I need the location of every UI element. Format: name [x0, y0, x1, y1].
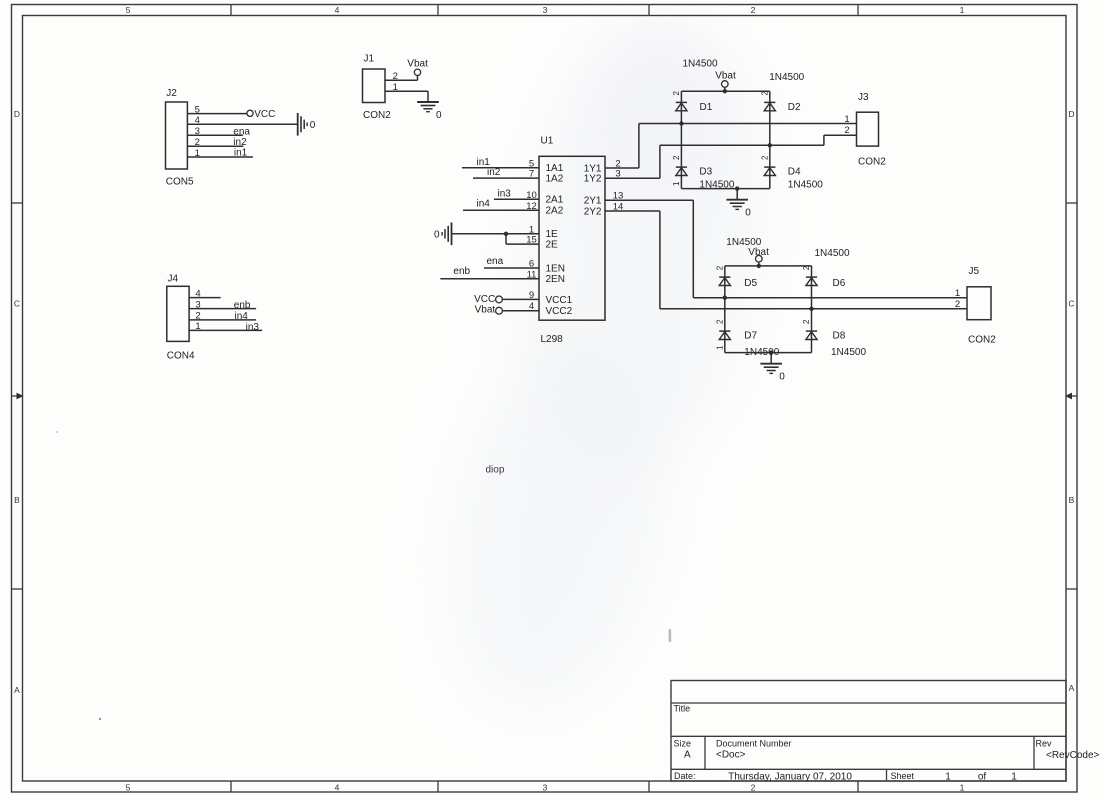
svg-text:0: 0	[436, 110, 442, 121]
svg-text:4: 4	[335, 783, 340, 793]
J4 pin numbers 4 3 2 1	[195, 288, 200, 332]
ground 0 (U1 1E/2E, earth style)	[434, 223, 452, 246]
svg-text:1: 1	[960, 5, 965, 15]
svg-text:B: B	[14, 495, 20, 505]
svg-text:enb: enb	[453, 266, 470, 277]
svg-text:1: 1	[955, 288, 960, 299]
junction Vbat tap bridge2	[757, 264, 761, 268]
svg-text:0: 0	[310, 120, 316, 131]
svg-text:CON2: CON2	[363, 110, 391, 121]
svg-text:of: of	[978, 772, 987, 783]
connector J3 CON2	[857, 92, 887, 168]
wire Vbat to U1 pin4	[502, 310, 539, 312]
svg-text:VCC: VCC	[474, 294, 495, 305]
svg-text:2: 2	[955, 299, 960, 310]
power symbol Vbat (bridge1)	[715, 71, 736, 92]
svg-text:1A2: 1A2	[546, 174, 564, 185]
svg-text:J2: J2	[166, 88, 177, 99]
svg-text:Vbat: Vbat	[407, 59, 428, 70]
svg-text:VCC: VCC	[254, 109, 275, 120]
svg-text:J3: J3	[858, 92, 869, 103]
connector J1 CON2	[363, 54, 392, 122]
svg-text:A: A	[684, 750, 691, 761]
wire rail B2 to J5 pin2	[660, 308, 967, 310]
connector J2 CON5	[166, 88, 195, 188]
power symbol Vbat (bridge2)	[748, 247, 769, 266]
svg-text:Thursday, January 07, 2010: Thursday, January 07, 2010	[728, 772, 852, 783]
svg-text:Size: Size	[674, 739, 692, 749]
wire U1 1Y2 (pin3) up to bridge rail B	[605, 145, 660, 178]
wire rail A to J3 pin1	[639, 123, 857, 125]
junction Vbat tap bridge1	[723, 89, 727, 93]
diode D6	[806, 277, 817, 285]
svg-text:Sheet: Sheet	[891, 771, 915, 781]
svg-text:B: B	[1069, 495, 1075, 505]
svg-text:1N4500: 1N4500	[831, 347, 866, 358]
svg-text:2Y2: 2Y2	[584, 206, 602, 217]
svg-text:in4: in4	[235, 311, 249, 322]
junction ground tap bridge2	[769, 350, 773, 354]
svg-text:0: 0	[434, 229, 440, 240]
wire net in3 to U1 pin10	[494, 198, 539, 200]
wire J2 pin3, net ena	[187, 134, 242, 136]
svg-text:D1: D1	[700, 102, 713, 113]
svg-text:2A1: 2A1	[546, 195, 564, 206]
junction rail A2 / D5 D7 leg	[723, 296, 727, 300]
svg-text:L298: L298	[541, 334, 564, 345]
wire net in2 to U1 pin7	[473, 177, 539, 179]
wire net ena to U1 pin6	[484, 267, 539, 269]
svg-text:in1: in1	[234, 147, 248, 158]
svg-text:CON2: CON2	[968, 335, 996, 346]
svg-text:D3: D3	[699, 166, 712, 177]
svg-text:in3: in3	[246, 322, 260, 333]
svg-text:1: 1	[960, 783, 965, 793]
junction 1E/2E	[504, 232, 508, 236]
svg-text:CON4: CON4	[167, 351, 195, 362]
svg-text:Vbat: Vbat	[475, 305, 496, 316]
diode D8	[806, 331, 817, 339]
svg-text:VCC1: VCC1	[546, 295, 573, 306]
svg-text:2: 2	[751, 783, 756, 793]
svg-text:Vbat: Vbat	[715, 71, 736, 82]
svg-text:in3: in3	[498, 188, 512, 199]
U1 left pin numbers	[526, 158, 537, 312]
svg-text:D: D	[14, 109, 20, 119]
svg-text:J4: J4	[168, 274, 179, 285]
svg-text:1N4500: 1N4500	[683, 59, 718, 70]
svg-text:A: A	[14, 685, 20, 695]
connector J5 CON2	[967, 266, 996, 346]
svg-text:ena: ena	[233, 126, 250, 137]
svg-text:1N4500: 1N4500	[788, 180, 823, 191]
wire U1 2Y1 (pin13) down to bridge rail A2	[605, 200, 693, 298]
svg-text:3: 3	[543, 783, 548, 793]
svg-text:1N4500: 1N4500	[726, 237, 761, 248]
svg-text:1EN: 1EN	[546, 263, 565, 274]
wire J1 pin2 to Vbat	[385, 75, 418, 80]
svg-text:2EN: 2EN	[546, 274, 565, 285]
svg-text:A: A	[1069, 683, 1075, 693]
title block	[671, 681, 1100, 783]
svg-text:2A2: 2A2	[546, 206, 564, 217]
ground 0 (bridge2)	[760, 353, 785, 383]
svg-text:U1: U1	[541, 136, 554, 147]
svg-text:D: D	[1068, 109, 1074, 119]
svg-text:2Y1: 2Y1	[584, 196, 602, 207]
power symbol Vbat (U1 VCC2)	[475, 305, 503, 316]
svg-text:C: C	[1068, 299, 1074, 309]
power symbol VCC (J2)	[247, 109, 275, 120]
svg-text:J5: J5	[969, 266, 980, 277]
ground 0 (J1)	[417, 102, 442, 121]
power symbol VCC (U1 VCC1)	[474, 294, 502, 305]
svg-text:<Doc>: <Doc>	[716, 750, 746, 761]
svg-text:2: 2	[802, 265, 811, 270]
op-amp U1 L298 body	[539, 136, 605, 346]
svg-text:J1: J1	[364, 54, 375, 65]
svg-text:Date:: Date:	[674, 771, 696, 781]
svg-text:1N4500: 1N4500	[815, 248, 850, 259]
svg-text:C: C	[14, 299, 20, 309]
wire D1 D3 leg	[680, 91, 682, 188]
wire D2 D4 leg	[769, 91, 771, 188]
svg-text:Document Number: Document Number	[716, 739, 792, 749]
wire U1 2Y2 (pin14) down to bridge rail B2	[605, 211, 660, 309]
svg-text:1: 1	[1011, 772, 1017, 783]
diode D1	[676, 102, 687, 110]
wire J1 pin1 to ground	[385, 91, 428, 102]
wire bridge2 bottom rail	[725, 352, 812, 354]
wire J2 pin1, net in1	[187, 156, 253, 158]
U1 right pin numbers	[613, 159, 624, 213]
diode D4	[764, 167, 775, 175]
svg-text:1Y2: 1Y2	[584, 174, 602, 185]
svg-text:1: 1	[844, 114, 849, 125]
svg-text:2: 2	[715, 319, 724, 324]
wire net in1 to U1 pin5	[462, 167, 539, 169]
diode D5	[719, 277, 730, 285]
svg-text:in2: in2	[487, 167, 501, 178]
ground 0 (J2 pin4, earth style)	[298, 113, 316, 136]
svg-text:2E: 2E	[546, 240, 559, 251]
svg-text:1: 1	[672, 181, 681, 186]
wire net enb to U1 pin11	[440, 278, 539, 280]
diode D3	[676, 167, 687, 175]
junction rail A / D1 D3 leg	[679, 121, 683, 125]
wire J2 pin2, net in2	[187, 145, 243, 147]
wire net in4 to U1 pin12	[463, 209, 539, 211]
diode D2	[764, 102, 775, 110]
svg-text:D2: D2	[788, 102, 801, 113]
svg-text:3: 3	[543, 5, 548, 15]
svg-text:5: 5	[126, 783, 131, 793]
wire bridge1 top rail	[681, 90, 769, 92]
svg-text:2: 2	[715, 265, 724, 270]
svg-text:5: 5	[126, 5, 131, 15]
svg-text:2: 2	[672, 91, 681, 96]
wire to U1 pin15 2E	[506, 234, 539, 244]
wire rail B to J3 pin2 jog	[660, 135, 857, 145]
wire ground to U1 pin1 1E	[452, 233, 540, 235]
wire bridge2 top rail	[725, 265, 812, 267]
wire J2 pin5 to VCC	[187, 113, 246, 115]
wire VCC to U1 pin9	[502, 298, 539, 300]
svg-text:Vbat: Vbat	[748, 247, 769, 258]
J2 pin numbers 5 4 3 2 1	[195, 104, 200, 158]
svg-text:1: 1	[715, 345, 724, 350]
svg-text:2: 2	[844, 125, 849, 136]
wire J4 pin3, net enb	[189, 308, 256, 310]
svg-text:CON5: CON5	[166, 177, 194, 188]
svg-text:2: 2	[760, 91, 769, 96]
junction ground tap bridge1	[735, 186, 739, 190]
svg-text:D4: D4	[788, 166, 801, 177]
svg-text:D8: D8	[833, 330, 846, 341]
svg-text:D7: D7	[744, 330, 757, 341]
svg-text:D5: D5	[744, 278, 757, 289]
ground 0 (bridge1)	[726, 189, 751, 219]
svg-text:1: 1	[945, 772, 951, 783]
U1 right pin names	[584, 163, 602, 217]
connector J4 CON4	[167, 274, 195, 362]
wire D6 D8 leg	[811, 266, 813, 353]
svg-text:Title: Title	[674, 704, 691, 714]
svg-text:diop: diop	[486, 465, 505, 476]
svg-text:in4: in4	[477, 199, 491, 210]
svg-text:0: 0	[745, 208, 751, 219]
wire D5 D7 leg	[724, 266, 726, 353]
svg-text:Rev: Rev	[1036, 739, 1053, 749]
svg-text:1N4500: 1N4500	[769, 72, 804, 83]
junction rail B / D2 D4 leg	[768, 143, 772, 147]
wire J2 pin4 to ground	[187, 123, 297, 125]
svg-text:2: 2	[751, 5, 756, 15]
wire J4 pin1, net in3	[189, 329, 262, 331]
wire J4 pin2, net in4	[189, 319, 256, 321]
wire rail A2 to J5 pin1	[693, 297, 967, 299]
svg-text:enb: enb	[234, 300, 251, 311]
svg-text:VCC2: VCC2	[546, 306, 573, 317]
svg-text:0: 0	[779, 372, 785, 383]
wire bridge1 bottom rail	[681, 188, 769, 190]
wire U1 1Y1 (pin2) up to bridge rail A	[605, 124, 639, 169]
svg-text:CON2: CON2	[858, 157, 886, 168]
svg-text:2: 2	[672, 155, 681, 160]
svg-text:ena: ena	[487, 256, 504, 267]
svg-text:2: 2	[760, 155, 769, 160]
diode D7	[719, 331, 730, 339]
svg-text:D6: D6	[833, 278, 846, 289]
U1 left pin names	[546, 163, 573, 317]
wire J4 pin4	[189, 297, 221, 299]
power symbol Vbat (J1)	[407, 59, 428, 76]
svg-text:<RevCode>: <RevCode>	[1046, 750, 1100, 761]
svg-text:2: 2	[802, 319, 811, 324]
svg-text:4: 4	[335, 5, 340, 15]
junction rail B2 / D6 D8 leg	[809, 307, 813, 311]
